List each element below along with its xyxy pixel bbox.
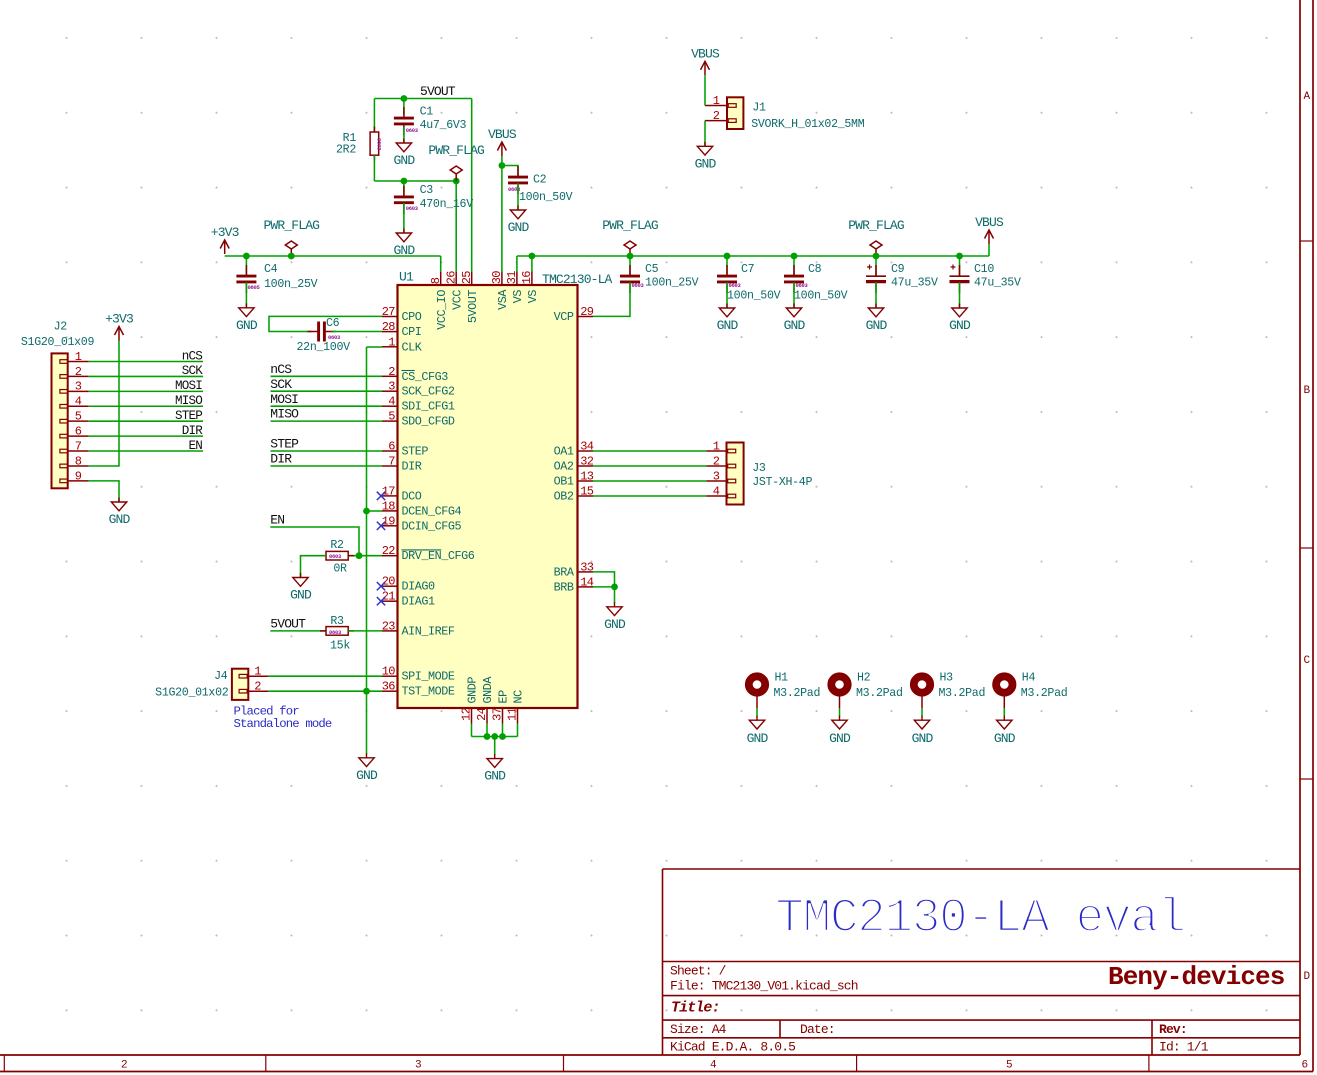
capacitor C5 xyxy=(620,265,640,293)
svg-text:0805: 0805 xyxy=(248,284,261,291)
power symbol VBUS xyxy=(985,230,994,244)
wire OB2 to J3 pin 4 xyxy=(593,495,707,497)
wire C10 to ground xyxy=(959,282,961,308)
svg-text:DRV_EN_CFG6: DRV_EN_CFG6 xyxy=(402,549,475,563)
svg-text:Beny-devices: Beny-devices xyxy=(1108,962,1285,992)
svg-text:100n_50V: 100n_50V xyxy=(727,290,781,303)
svg-text:33: 33 xyxy=(580,560,594,574)
J2 pin 3 xyxy=(60,380,89,394)
svg-text:CLK: CLK xyxy=(402,340,423,354)
svg-text:Rev:: Rev: xyxy=(1159,1022,1187,1037)
svg-text:H4: H4 xyxy=(1022,672,1036,685)
svg-text:DCIN_CFG5: DCIN_CFG5 xyxy=(402,519,462,533)
U1 pin 8 VCC_IO xyxy=(429,271,449,329)
svg-text:0603: 0603 xyxy=(508,186,521,193)
J4 pin 2 xyxy=(239,680,268,694)
svg-text:0603: 0603 xyxy=(729,282,742,289)
svg-text:R3: R3 xyxy=(330,615,344,628)
wire NC down xyxy=(517,724,519,737)
svg-text:470n_16V: 470n_16V xyxy=(420,198,474,211)
wire MOSI to U1 xyxy=(271,405,383,407)
J2 pin 7 xyxy=(60,439,89,453)
svg-text:MISO: MISO xyxy=(270,407,299,422)
svg-text:0603: 0603 xyxy=(329,629,342,636)
title block outline xyxy=(663,869,1301,1055)
svg-text:C3: C3 xyxy=(420,184,434,197)
svg-text:DIR: DIR xyxy=(270,452,292,467)
junction xyxy=(499,733,506,740)
svg-text:PWR_FLAG: PWR_FLAG xyxy=(848,218,904,233)
power flag PWR_FLAG xyxy=(624,241,636,256)
wire J2 pin 9 to ground xyxy=(89,481,119,502)
svg-text:+3V3: +3V3 xyxy=(211,225,239,240)
svg-text:MOSI: MOSI xyxy=(175,379,202,393)
junction xyxy=(484,733,491,740)
power symbol VBUS xyxy=(497,142,506,156)
no-connect mark xyxy=(377,597,385,605)
capacitor C9 polarized xyxy=(866,265,886,294)
U1 pin 26 VCC xyxy=(444,271,464,310)
svg-text:S1G20_01x09: S1G20_01x09 xyxy=(21,336,95,349)
connector J1 body xyxy=(727,97,743,129)
wire nCS to U1 xyxy=(271,375,383,377)
svg-text:H2: H2 xyxy=(857,672,871,685)
svg-text:Standalone mode: Standalone mode xyxy=(234,717,332,731)
svg-text:7: 7 xyxy=(75,439,82,453)
svg-text:3: 3 xyxy=(415,1060,421,1072)
wire C6 to U1 pin 28 CPI xyxy=(332,331,383,333)
svg-text:3: 3 xyxy=(388,380,395,394)
power symbol +3V3 xyxy=(220,240,229,254)
svg-text:Date:: Date: xyxy=(800,1022,835,1037)
J3 pin 4 xyxy=(707,484,736,498)
svg-text:VCC: VCC xyxy=(450,290,464,310)
svg-text:R2: R2 xyxy=(330,539,344,552)
svg-text:GND: GND xyxy=(393,153,415,168)
connector J4 body xyxy=(232,669,248,700)
U1 pin 4 SDI_CFG1 xyxy=(382,395,455,414)
wire 5VOUT to R3 xyxy=(270,630,326,632)
svg-text:100n_50V: 100n_50V xyxy=(794,290,848,303)
junction xyxy=(529,253,536,260)
svg-text:24: 24 xyxy=(475,707,489,721)
svg-text:47u_35V: 47u_35V xyxy=(974,277,1021,290)
U1 pin 32 OA2 xyxy=(554,455,594,474)
svg-text:5VOUT: 5VOUT xyxy=(420,84,456,99)
J2 pin 1 xyxy=(60,350,89,364)
svg-text:File: TMC2130_V01.kicad_sch: File: TMC2130_V01.kicad_sch xyxy=(670,979,858,994)
U1 pin 6 STEP xyxy=(382,440,428,459)
svg-text:STEP: STEP xyxy=(270,437,299,452)
svg-text:1: 1 xyxy=(713,439,720,453)
svg-text:CPO: CPO xyxy=(402,310,422,324)
mounting hole H4 xyxy=(996,676,1012,708)
svg-text:H3: H3 xyxy=(940,672,954,685)
svg-text:6: 6 xyxy=(75,425,82,439)
svg-text:C10: C10 xyxy=(974,263,994,276)
wire 5VOUT to U1 pin 25 xyxy=(471,99,473,273)
junction xyxy=(724,253,731,260)
svg-text:C6: C6 xyxy=(326,317,340,330)
sheet frame inner border xyxy=(0,1054,1300,1056)
wire C7 to ground xyxy=(726,282,728,308)
wire BRB to ground xyxy=(614,587,616,603)
svg-text:34: 34 xyxy=(580,440,594,454)
IC U1 TMC2130-LA body xyxy=(398,285,578,708)
svg-text:0603: 0603 xyxy=(406,205,419,212)
wire rail to U1 pin 8 VCC_IO xyxy=(440,256,442,272)
wire H4 to ground xyxy=(1003,708,1005,717)
svg-text:C9: C9 xyxy=(891,263,905,276)
svg-text:BRA: BRA xyxy=(554,565,575,579)
wire C5 top lead xyxy=(629,256,631,276)
svg-text:10: 10 xyxy=(382,665,396,679)
capacitor C6 xyxy=(308,322,336,342)
J2 pin 5 xyxy=(60,410,89,424)
wire bottom ground bus xyxy=(472,736,518,738)
svg-text:J4: J4 xyxy=(214,670,228,683)
ground xyxy=(868,304,883,317)
junction xyxy=(491,733,498,740)
junction xyxy=(873,253,880,260)
wire C2 to ground xyxy=(517,183,519,210)
U1 pin 20 DIAG0 xyxy=(382,575,435,594)
ground xyxy=(396,229,411,242)
mounting hole H2 xyxy=(831,676,847,708)
mounting hole H3 xyxy=(914,676,930,708)
svg-text:STEP: STEP xyxy=(175,409,202,423)
svg-text:100n_25V: 100n_25V xyxy=(264,278,318,291)
svg-text:GND: GND xyxy=(695,156,717,171)
svg-text:MISO: MISO xyxy=(175,394,202,408)
J3 pin 3 xyxy=(707,469,736,483)
svg-text:4: 4 xyxy=(388,395,395,409)
svg-text:30: 30 xyxy=(490,271,504,285)
U1 pin 14 BRB xyxy=(554,575,594,594)
svg-text:5: 5 xyxy=(75,410,82,424)
svg-text:2: 2 xyxy=(713,454,720,468)
svg-text:Sheet: /: Sheet: / xyxy=(670,964,727,979)
sheet frame outer border xyxy=(0,1071,1313,1073)
wire EP down xyxy=(502,724,504,737)
wire C9 top lead xyxy=(875,256,877,276)
wire R2 to U1 pin 22 xyxy=(348,555,382,557)
wire J4 pin 1 to U1 SPI_MODE xyxy=(268,675,382,677)
svg-text:GND: GND xyxy=(484,769,506,784)
svg-text:GNDA: GNDA xyxy=(481,676,495,704)
J2 pin 4 xyxy=(60,395,89,409)
no-connect mark xyxy=(377,492,385,500)
svg-text:C1: C1 xyxy=(420,105,434,118)
svg-text:4u7_6V3: 4u7_6V3 xyxy=(420,119,467,132)
wire 5VOUT horizontal xyxy=(374,98,471,100)
svg-text:C4: C4 xyxy=(264,263,278,276)
svg-text:SCK: SCK xyxy=(182,364,204,378)
wire C3 to ground xyxy=(403,203,405,233)
svg-text:5VOUT: 5VOUT xyxy=(270,617,306,632)
svg-text:+3V3: +3V3 xyxy=(105,312,133,327)
wire BRB xyxy=(593,586,615,588)
svg-text:2: 2 xyxy=(388,365,395,379)
svg-text:100n_25V: 100n_25V xyxy=(645,277,699,290)
resistor R3 xyxy=(320,627,354,636)
ground xyxy=(293,573,308,586)
U1 pin 3 SCK_CFG2 xyxy=(382,380,455,399)
svg-text:0603: 0603 xyxy=(328,334,341,341)
svg-text:STEP: STEP xyxy=(402,445,429,459)
svg-text:22: 22 xyxy=(382,544,396,558)
ground xyxy=(359,753,374,766)
svg-text:GND: GND xyxy=(717,318,739,333)
svg-text:CPI: CPI xyxy=(402,325,422,339)
svg-text:25: 25 xyxy=(460,271,474,285)
svg-text:4: 4 xyxy=(710,1060,717,1072)
svg-text:SDI_CFG1: SDI_CFG1 xyxy=(402,400,455,414)
svg-text:PWR_FLAG: PWR_FLAG xyxy=(602,218,658,233)
U1 pin 7 DIR xyxy=(382,455,422,474)
wire VCC horizontal xyxy=(374,180,456,182)
U1 pin 2 CS_CFG3 xyxy=(382,365,448,384)
U1 pin 19 DCIN_CFG5 xyxy=(382,514,462,533)
svg-text:C5: C5 xyxy=(645,263,659,276)
power symbol +3V3 xyxy=(115,327,124,341)
svg-text:8: 8 xyxy=(75,454,82,468)
svg-text:5: 5 xyxy=(1006,1060,1012,1072)
wire GNDP down xyxy=(471,724,473,737)
svg-text:GND: GND xyxy=(508,220,530,235)
svg-text:DIAG0: DIAG0 xyxy=(402,580,436,594)
svg-text:GND: GND xyxy=(356,768,378,783)
svg-text:B: B xyxy=(1303,385,1310,397)
capacitor C1 xyxy=(394,107,414,135)
svg-text:5: 5 xyxy=(388,410,395,424)
svg-text:C8: C8 xyxy=(808,263,822,276)
svg-text:18: 18 xyxy=(382,499,396,513)
svg-text:GND: GND xyxy=(236,318,258,333)
capacitor C3 xyxy=(394,186,414,214)
power flag PWR_FLAG xyxy=(450,166,462,181)
svg-text:AIN_IREF: AIN_IREF xyxy=(402,624,455,638)
power symbol VBUS xyxy=(701,61,710,75)
wire +3V3 rail xyxy=(225,255,441,257)
svg-text:EP: EP xyxy=(497,690,511,704)
svg-text:0603: 0603 xyxy=(796,282,809,289)
wire OA1 to J3 pin 1 xyxy=(593,450,707,452)
J4 pin 1 xyxy=(239,665,268,679)
U1 pin 28 CPI xyxy=(382,320,422,339)
svg-text:DIR: DIR xyxy=(182,424,204,438)
mounting hole H1 xyxy=(749,676,765,708)
svg-text:DCEN_CFG4: DCEN_CFG4 xyxy=(402,504,462,518)
capacitor C4 xyxy=(236,265,256,293)
wire R3 to U1 pin 23 xyxy=(348,630,382,632)
capacitor C8 xyxy=(784,265,804,293)
U1 pin 37 EP xyxy=(491,690,511,724)
U1 pin 25 5VOUT xyxy=(460,271,480,323)
wire J2 pin 3 MOSI xyxy=(89,390,203,392)
svg-text:PWR_FLAG: PWR_FLAG xyxy=(263,218,319,233)
svg-text:VSA: VSA xyxy=(496,289,510,310)
wire VS rail xyxy=(517,255,989,257)
svg-text:47u_35V: 47u_35V xyxy=(891,277,938,290)
wire C9 to ground xyxy=(875,282,877,308)
svg-text:GND: GND xyxy=(829,731,851,746)
svg-text:0603: 0603 xyxy=(376,138,383,151)
ground xyxy=(997,716,1012,729)
capacitor C2 xyxy=(508,166,528,194)
svg-text:TMC2130-LA: TMC2130-LA xyxy=(542,272,613,287)
svg-text:PWR_FLAG: PWR_FLAG xyxy=(428,143,484,158)
svg-text:M3.2Pad: M3.2Pad xyxy=(774,687,821,700)
wire C4 top lead xyxy=(245,256,247,276)
svg-text:14: 14 xyxy=(580,575,594,589)
svg-text:NC: NC xyxy=(512,690,526,704)
capacitor C10 polarized xyxy=(950,265,970,294)
J3 pin 1 xyxy=(707,439,736,453)
junction xyxy=(499,162,506,169)
ground xyxy=(487,754,502,767)
wire J2 pin8 to +3V3 xyxy=(89,341,119,467)
wire J2 pin 7 EN xyxy=(89,450,203,452)
ground xyxy=(786,304,801,317)
wire C5 to VCP xyxy=(593,282,630,316)
wire H1 to ground xyxy=(756,708,758,717)
svg-text:VCC_IO: VCC_IO xyxy=(435,290,449,330)
svg-text:BRB: BRB xyxy=(554,580,574,594)
svg-text:1: 1 xyxy=(388,335,395,349)
U1 pin 23 AIN_IREF xyxy=(382,619,455,638)
svg-text:nCS: nCS xyxy=(270,362,292,377)
wire C3 top lead xyxy=(403,181,405,197)
svg-text:1: 1 xyxy=(75,350,82,364)
svg-text:5VOUT: 5VOUT xyxy=(466,290,480,324)
svg-text:S1G20_01x02: S1G20_01x02 xyxy=(155,686,229,699)
svg-text:15: 15 xyxy=(580,485,594,499)
junction xyxy=(288,253,295,260)
J1 pin 1 xyxy=(705,94,736,108)
U1 pin 34 OA1 xyxy=(554,440,594,459)
wire EN xyxy=(270,527,359,556)
svg-text:32: 32 xyxy=(580,455,594,469)
junction xyxy=(356,552,363,559)
J2 pin 6 xyxy=(60,425,89,439)
junction xyxy=(363,688,370,695)
svg-text:13: 13 xyxy=(580,470,594,484)
svg-text:OB2: OB2 xyxy=(554,490,574,504)
wire STEP to U1 xyxy=(271,450,383,452)
svg-text:Size: A4: Size: A4 xyxy=(670,1022,727,1037)
J3 pin 2 xyxy=(707,454,736,468)
svg-text:GND: GND xyxy=(604,617,626,632)
svg-text:0R: 0R xyxy=(333,563,347,576)
svg-text:KiCad E.D.A. 8.0.5: KiCad E.D.A. 8.0.5 xyxy=(670,1040,795,1055)
ground xyxy=(952,304,967,317)
wire GNDA down xyxy=(486,724,488,737)
svg-text:9: 9 xyxy=(75,469,82,483)
svg-text:C: C xyxy=(1303,655,1310,667)
svg-text:22n_100V: 22n_100V xyxy=(297,341,351,354)
svg-text:GND: GND xyxy=(949,318,971,333)
svg-text:DIAG1: DIAG1 xyxy=(402,595,436,609)
svg-text:16: 16 xyxy=(520,271,534,285)
wire H3 to ground xyxy=(921,708,923,717)
wire C7 top lead xyxy=(726,256,728,276)
svg-text:Id: 1/1: Id: 1/1 xyxy=(1159,1040,1209,1055)
svg-text:VS: VS xyxy=(511,290,525,304)
ground xyxy=(396,139,411,152)
svg-text:H1: H1 xyxy=(775,672,789,685)
U1 pin 10 SPI_MODE xyxy=(382,665,455,684)
U1 pin 16 VS xyxy=(520,271,540,304)
wire R2 left to ground xyxy=(301,556,327,578)
wire vertical CLK-DCEN-TST_MODE-GND xyxy=(366,347,368,754)
U1 pin 12 GNDP xyxy=(460,677,480,724)
svg-text:nCS: nCS xyxy=(182,349,203,363)
svg-text:VS: VS xyxy=(526,290,540,304)
svg-text:19: 19 xyxy=(382,514,396,528)
svg-text:M3.2Pad: M3.2Pad xyxy=(939,687,986,700)
ground xyxy=(749,716,764,729)
ground xyxy=(510,206,525,219)
U1 pin 30 VSA xyxy=(490,271,510,310)
svg-text:GNDP: GNDP xyxy=(466,677,480,704)
svg-text:VBUS: VBUS xyxy=(691,46,720,61)
svg-text:GND: GND xyxy=(747,731,769,746)
ground xyxy=(111,498,126,511)
svg-text:28: 28 xyxy=(382,320,396,334)
U1 pin 22 DRV_EN_CFG6 xyxy=(382,544,475,563)
power flag PWR_FLAG xyxy=(870,241,882,256)
ground xyxy=(607,602,622,615)
svg-text:VCP: VCP xyxy=(554,310,574,324)
wire rail to U1 pin 31 VS xyxy=(516,256,518,272)
wire C8 top lead xyxy=(793,256,795,276)
no-connect mark xyxy=(377,522,385,530)
wire OB1 to J3 pin 3 xyxy=(593,480,707,482)
wire rail to U1 pin 16 VS xyxy=(531,256,533,272)
wire J2 pin 6 DIR xyxy=(89,435,203,437)
resistor R2 xyxy=(320,551,354,560)
svg-text:8: 8 xyxy=(429,277,443,284)
svg-text:11: 11 xyxy=(506,707,520,721)
svg-text:21: 21 xyxy=(382,590,396,604)
junction xyxy=(243,253,250,260)
capacitor C7 xyxy=(717,265,737,293)
svg-text:2R2: 2R2 xyxy=(336,143,356,156)
junction xyxy=(956,253,963,260)
svg-text:100n_50V: 100n_50V xyxy=(519,191,573,204)
svg-text:EN: EN xyxy=(270,513,284,528)
svg-text:SVORK_H_01x02_5MM: SVORK_H_01x02_5MM xyxy=(751,118,865,131)
wire VCC to U1 pin 26 xyxy=(455,181,457,272)
U1 pin 13 OB1 xyxy=(554,470,594,489)
power flag PWR_FLAG xyxy=(285,241,297,256)
svg-text:MOSI: MOSI xyxy=(270,392,298,407)
svg-text:2: 2 xyxy=(75,365,82,379)
ground xyxy=(832,716,847,729)
U1 pin 18 DCEN_CFG4 xyxy=(382,499,462,518)
connector J2 body xyxy=(52,353,68,488)
J2 pin 8 xyxy=(60,454,89,468)
wire C4 to ground xyxy=(245,282,247,308)
ground xyxy=(719,304,734,317)
svg-text:1: 1 xyxy=(254,665,261,679)
svg-text:0603: 0603 xyxy=(406,127,419,134)
wire R1 top lead xyxy=(373,99,375,133)
svg-text:J2: J2 xyxy=(54,320,68,333)
svg-text:GND: GND xyxy=(290,588,312,603)
wire VBUS to J1 pin 1 xyxy=(704,75,706,105)
